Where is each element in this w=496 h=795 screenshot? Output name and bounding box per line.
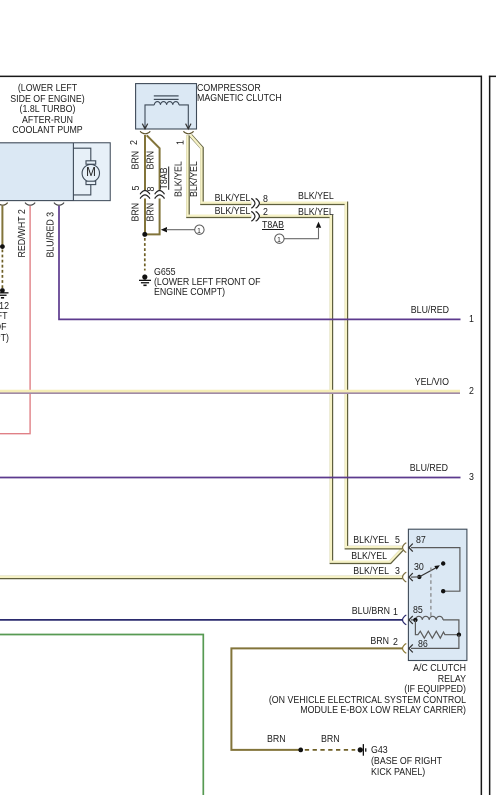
relay internal pin 30 [414, 563, 424, 573]
relay terminal arrow pin 3 (30) [409, 573, 413, 581]
svg-text:BLK/YEL: BLK/YEL [189, 161, 200, 197]
frame second panel left vertical [489, 76, 491, 795]
junction node BRN bottom [298, 748, 303, 753]
label BLU/RED run 3 [358, 464, 448, 474]
connector name T8AB (horizontal) [262, 221, 284, 231]
junction node on left BRN wire [0, 244, 5, 249]
label BLK/YEL relay row 3 [299, 567, 389, 577]
wire BLU/RED from pump pin 3 to horizontal run 1 [59, 206, 461, 320]
ground G655 caption text [154, 268, 260, 297]
label BLK/YEL upper run right [298, 192, 334, 202]
A/C clutch relay box [408, 529, 467, 660]
ground G43 caption text [371, 745, 442, 778]
relay terminal arrow pin 2 (86) [409, 644, 413, 652]
svg-text:BLU/RED 3: BLU/RED 3 [45, 212, 56, 258]
compressor magnetic clutch box [136, 84, 197, 129]
svg-text:8: 8 [146, 187, 157, 192]
relay pin 86 internal line [411, 635, 459, 649]
svg-text:1: 1 [175, 140, 186, 145]
relay pin 5 cup terminal [403, 543, 407, 553]
relay pin 1 cup terminal [403, 615, 407, 625]
label BLK/YEL lower run left [160, 207, 250, 217]
frame right border inner vertical [481, 76, 483, 795]
ground G655 node dot [142, 274, 147, 279]
relay pin number 2 [393, 638, 398, 648]
svg-text:2: 2 [129, 140, 140, 145]
reference arrow to circuit 1 (BLK/YEL) [284, 222, 321, 239]
frame top border line [0, 76, 482, 78]
relay actuating dashed link [430, 568, 432, 618]
connector T8AB arcs on lower horizontal BLK/YEL run [251, 212, 259, 222]
pump pin cup terminal (left) [0, 203, 8, 206]
svg-text:BLK/YEL: BLK/YEL [173, 161, 184, 197]
label YEL/VIO run 2 [359, 378, 449, 388]
pump pin cup terminal 2 [25, 203, 35, 206]
label BLK/YEL relay row 2 [297, 552, 387, 562]
svg-text:BRN: BRN [130, 151, 141, 170]
connector name T8AB underline [168, 167, 170, 190]
wire BRN pin 2 run to ground G43 [231, 648, 402, 750]
relay movable contact 30 [411, 561, 445, 579]
wire BRN A from clutch pin 2 straight down [144, 135, 146, 235]
relay caption text [259, 664, 466, 716]
relay terminal arrow pin 5 (87) [409, 544, 413, 552]
label BLK/YEL lower run right [298, 208, 334, 218]
relay internal pin 85 [413, 606, 423, 616]
relay coil node dot (85) [413, 618, 417, 622]
connector T8AB arcs on wire B [155, 191, 165, 199]
destination number 2 [469, 387, 474, 397]
relay pin number 1 [393, 608, 398, 618]
relay internal pin 86 [418, 640, 428, 650]
connector pin number 2 (lower run) [263, 208, 268, 218]
clutch pin cup terminal 1 [184, 131, 194, 134]
svg-text:T8AB: T8AB [159, 167, 170, 189]
pump pin cup terminal 3 [54, 203, 64, 206]
wire BRN B from clutch pin 2 diagonal branch [145, 135, 160, 234]
relay internal pin 87 [416, 536, 426, 546]
dashed BRN wire to ground G43 [305, 749, 355, 751]
wire BLK/YEL C from clutch pin 1 down, right at lower run, down to relay elbow [187, 135, 403, 562]
clutch terminal arrow pin 1 [186, 124, 191, 129]
wire GREEN passing run [0, 635, 203, 795]
relay pin 2 cup terminal [403, 644, 407, 654]
wire BRN from pump left pin down [1, 206, 3, 246]
clutch pin cup terminal 2 [140, 131, 150, 134]
circled reference number 1 (BLK/YEL) [275, 234, 284, 243]
svg-text:BRN: BRN [145, 203, 156, 222]
pump motor M letter [84, 167, 97, 177]
ground G655 symbol [139, 280, 151, 286]
connector pin number 8 (upper run) [263, 195, 268, 205]
pump caption text [6, 84, 88, 136]
ground G112 node dot [0, 288, 5, 293]
svg-text:RED/WHT 2: RED/WHT 2 [17, 209, 28, 257]
wire RED/WHT from pump pin 2 [0, 206, 30, 434]
relay coil between 85 and 86 [411, 616, 459, 634]
wire YEL/VIO horizontal run 2 [0, 391, 460, 392]
connector T8AB arcs on wire A [140, 191, 150, 199]
clutch core lines [154, 95, 179, 100]
label BLU/BRN relay pin 1 [300, 607, 390, 617]
destination number 3 [469, 473, 474, 483]
label BLK/YEL relay row 1 [299, 536, 389, 546]
ground G112 symbol (clipped at page edge) [0, 292, 9, 298]
relay resistor node dot (86 side) [457, 633, 461, 637]
destination number 1 [469, 315, 474, 325]
svg-text:BRN: BRN [145, 151, 156, 170]
label BLU/RED run 1 [359, 306, 449, 316]
svg-text:5: 5 [131, 186, 142, 191]
relay pin 3 cup terminal [403, 572, 407, 582]
wire BLU/BRN pin 1 horizontal run [0, 619, 403, 621]
ground G112 caption fragments (clipped at page edge) [0, 302, 9, 312]
relay parallel resistor [415, 620, 459, 638]
pump motor M1 symbol [73, 148, 99, 195]
label BRN bottom right [321, 735, 340, 745]
wire BLK/YEL pin 3 horizontal run [0, 575, 402, 579]
label BRN bottom left [267, 735, 286, 745]
ground G43 node dot [358, 747, 363, 752]
clutch coil L [145, 102, 188, 129]
after-run coolant pump box [0, 143, 110, 201]
relay internal contact 87 line [411, 548, 460, 592]
wire BLU/RED horizontal run 3 [0, 477, 461, 479]
relay pin number 3 [395, 567, 400, 577]
relay contact fixed node dot (87 side) [441, 589, 445, 593]
circled reference digit 1 (BLK/YEL) [277, 235, 282, 245]
ground G43 symbol [363, 744, 367, 756]
clutch terminal arrow pin 2 [142, 124, 147, 129]
reference arrow to circuit 1 (BRN) [161, 227, 195, 232]
svg-text:BRN: BRN [130, 203, 141, 222]
wire BLK/YEL D diagonal branch from clutch pin 1, upper run, into relay pin 5 [190, 135, 402, 548]
relay terminal arrow pin 1 (85) [409, 616, 413, 624]
compressor caption text [197, 84, 282, 104]
connector T8AB arcs on upper horizontal BLK/YEL run [251, 199, 259, 209]
dashed BRN wire to ground G655 [144, 238, 146, 271]
dashed wire to ground G112 [1, 250, 3, 289]
circled reference digit 1 (BRN) [197, 226, 202, 236]
circled reference number 1 (BRN) [195, 225, 204, 234]
relay pin number 5 [395, 536, 400, 546]
junction node BRN wires A+B [142, 232, 147, 237]
frame second panel top line [489, 76, 496, 78]
label BLK/YEL upper run left [160, 194, 250, 204]
label BRN relay pin 2 [299, 637, 389, 647]
